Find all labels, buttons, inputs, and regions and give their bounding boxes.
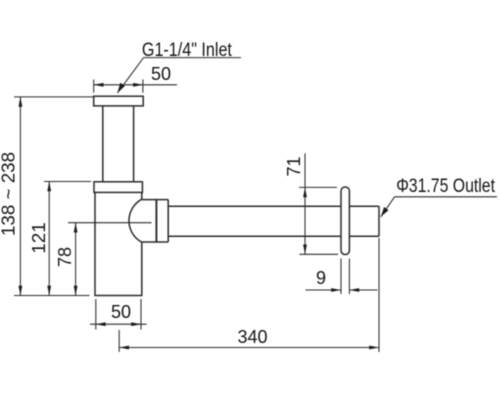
arrow 50-top right — [133, 83, 143, 87]
outlet leader line — [381, 197, 497, 217]
arrow outlet leader — [381, 207, 389, 217]
svg-text:G1-1/4" Inlet: G1-1/4" Inlet — [142, 39, 232, 61]
wall flange (escutcheon) — [341, 187, 349, 255]
arrow 121 bottom — [47, 286, 51, 296]
arrow 9 right — [349, 288, 359, 292]
cup right edge upper stub — [141, 192, 143, 199]
svg-text:78: 78 — [55, 247, 75, 267]
elbow nut rings — [155, 200, 157, 242]
dim 340: dimension line — [119, 347, 379, 349]
svg-text:Φ31.75 Outlet: Φ31.75 Outlet — [396, 176, 495, 197]
svg-text:9: 9 — [316, 268, 326, 288]
dim 50 top: witness lines — [94, 80, 143, 93]
arrow 340 right — [369, 346, 379, 350]
arrow 9 left — [331, 288, 341, 292]
arrow 78 top — [74, 223, 78, 233]
dim 78: dimension line — [75, 223, 77, 296]
dim 121: dimension line — [48, 182, 50, 296]
arrow 50-bottom left — [96, 322, 106, 326]
inlet leader line — [117, 58, 241, 93]
elbow ball arc — [129, 199, 142, 242]
dim 340: witness lines — [119, 238, 379, 352]
pipe centerline — [68, 222, 152, 224]
inlet tube — [103, 106, 134, 182]
svg-text:50: 50 — [111, 302, 131, 322]
dim 138~238: witness lines — [14, 97, 93, 296]
outlet pipe — [168, 206, 379, 236]
svg-text:71: 71 — [284, 156, 304, 176]
dim 50 bottom: witness lines — [96, 299, 141, 330]
dim 138~238: dimension line — [19, 97, 21, 296]
compression nut / collar — [94, 182, 142, 193]
arrow 78 bottom — [74, 286, 78, 296]
dim 50 top: dimension line — [94, 84, 177, 86]
dim 9: witness lines — [341, 259, 349, 295]
arrow 340 left — [119, 346, 129, 350]
arrow 121 top — [47, 182, 51, 192]
arrow 71 bottom — [303, 245, 307, 255]
dim 9: dimension line segments — [306, 289, 378, 291]
arrow 50-top left — [94, 83, 104, 87]
elbow housing top/bottom — [142, 200, 168, 242]
inlet flange (top) — [94, 96, 144, 106]
svg-text:121: 121 — [29, 222, 49, 254]
arrow 71 top — [303, 187, 307, 197]
svg-text:340: 340 — [237, 327, 267, 347]
arrow 138 top — [19, 97, 23, 107]
arrow 50-bottom right — [131, 322, 141, 326]
dim 50 bottom: dimension line — [90, 323, 147, 325]
arrow inlet leader — [117, 83, 125, 93]
svg-text:50: 50 — [151, 64, 171, 84]
body cup — [95, 192, 142, 295]
svg-text:138 ~ 238: 138 ~ 238 — [0, 152, 19, 236]
dim 121: witness line — [44, 181, 91, 183]
arrow 138 bottom — [19, 286, 23, 296]
dim 71: dimension line — [304, 153, 306, 254]
dim 71: witness lines — [299, 187, 338, 254]
